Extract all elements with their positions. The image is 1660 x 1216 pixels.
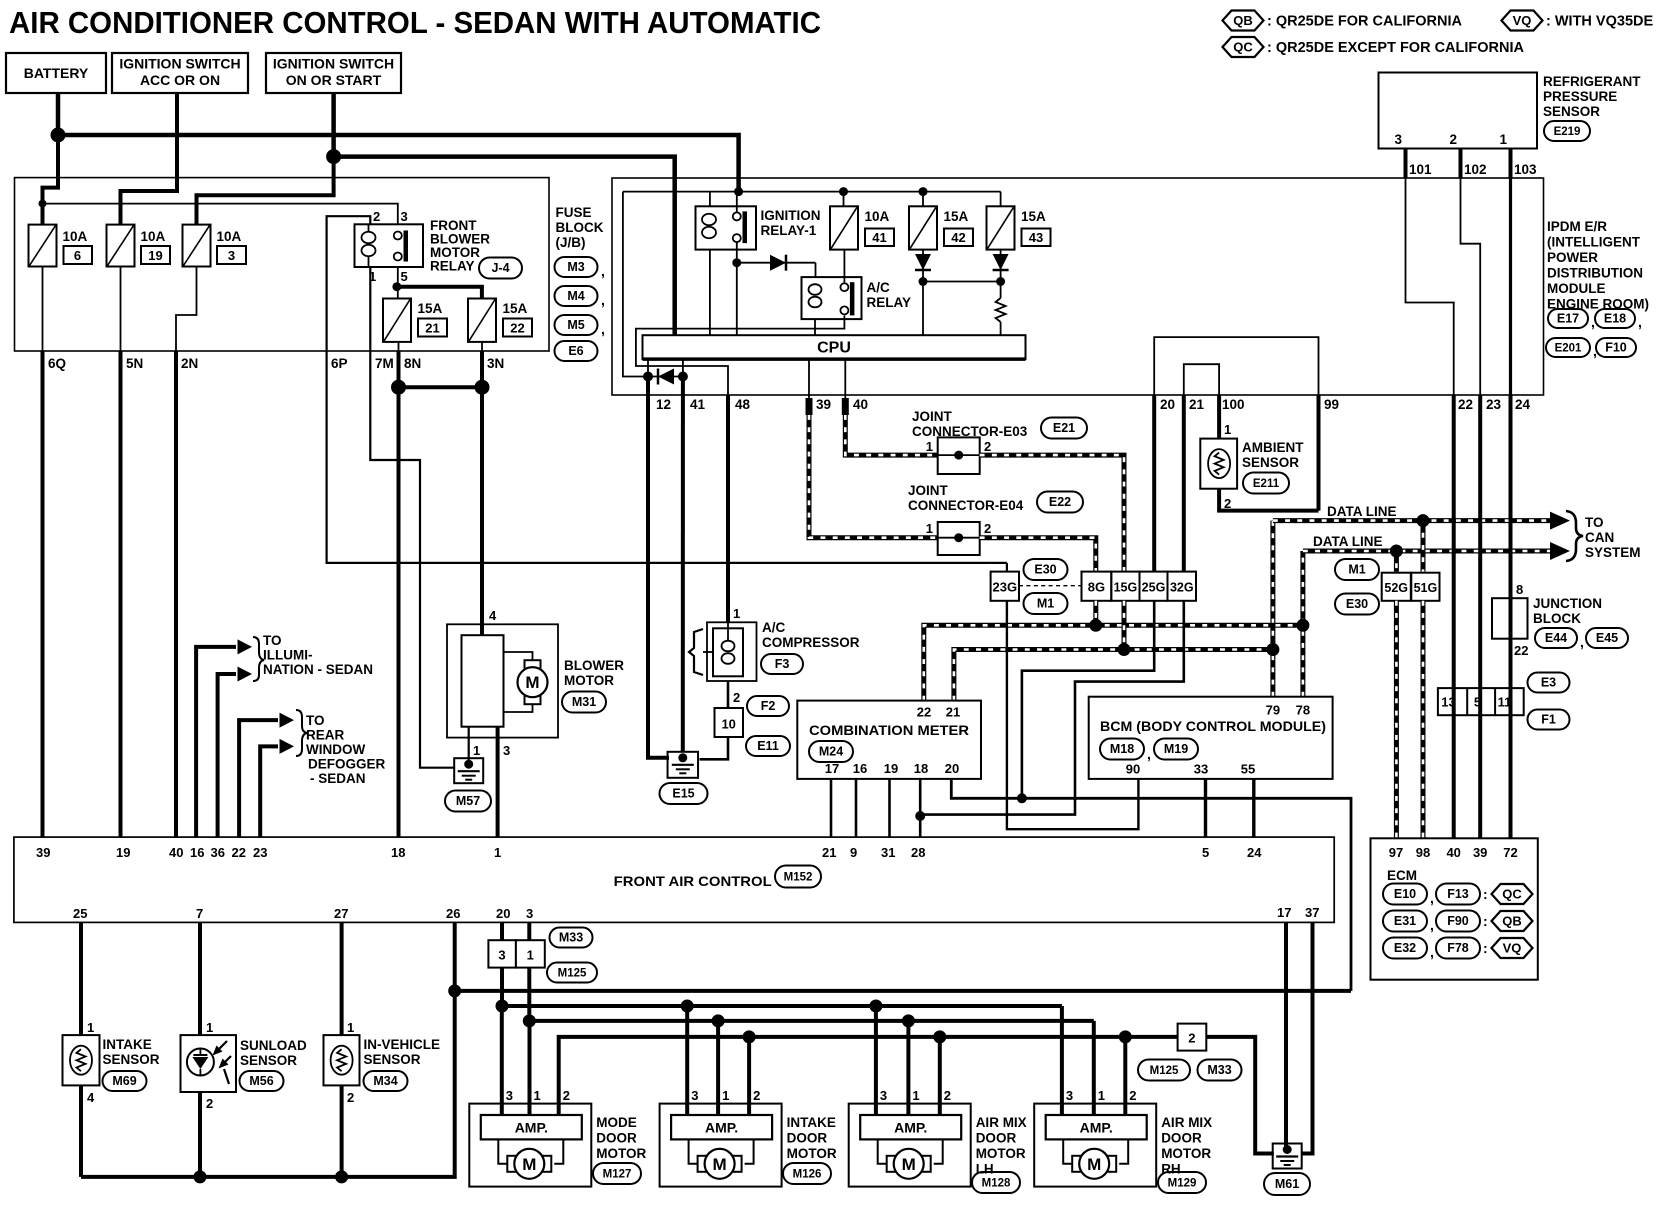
svg-text:41: 41 — [690, 397, 706, 412]
svg-text:5: 5 — [401, 269, 408, 284]
svg-text:REFRIGERANT: REFRIGERANT — [1543, 74, 1641, 89]
svg-text:AMP.: AMP. — [1080, 1120, 1113, 1136]
svg-text:2: 2 — [733, 690, 740, 705]
svg-text:F10: F10 — [1605, 341, 1627, 355]
svg-text:RELAY: RELAY — [430, 259, 475, 274]
svg-text:36: 36 — [211, 845, 225, 860]
junction CPU pin 12 — [643, 372, 653, 382]
diode below fuse 42 — [915, 254, 931, 270]
connector label E31 — [1383, 911, 1427, 932]
svg-text:SENSOR: SENSOR — [240, 1053, 297, 1068]
relay J-4 coil — [362, 232, 376, 243]
svg-text:41: 41 — [872, 230, 886, 245]
svg-text:1: 1 — [912, 1088, 919, 1103]
svg-text:M125: M125 — [558, 968, 587, 980]
svg-text:DOOR: DOOR — [1161, 1131, 1202, 1146]
svg-text:DOOR: DOOR — [596, 1131, 637, 1146]
svg-text:COMBINATION METER: COMBINATION METER — [809, 722, 969, 738]
wire ON/START to fuse 3 — [197, 157, 334, 225]
CPU box — [643, 335, 1026, 359]
wire ON/START feed horizontal to IPDM CPU — [334, 157, 675, 336]
wire joining 8N and 3N — [399, 385, 483, 389]
svg-text:22: 22 — [232, 845, 246, 860]
connector 1 box M33/M125 — [516, 940, 545, 967]
wire ON/START feed down — [331, 93, 336, 157]
svg-text:CONNECTOR-E04: CONNECTOR-E04 — [908, 498, 1024, 513]
wire A/C relay coil to CPU — [814, 319, 816, 335]
wire front air 36 to illumination arrow — [218, 674, 236, 837]
connector label F2 — [747, 696, 789, 716]
wire meter 18 to front air 28 — [919, 779, 922, 837]
svg-text:10A: 10A — [141, 229, 166, 244]
svg-text:19: 19 — [884, 761, 898, 776]
motor M air mix door motor LH M128 — [887, 1156, 896, 1172]
svg-text:E11: E11 — [757, 739, 779, 753]
svg-text:SENSOR: SENSOR — [1543, 104, 1600, 119]
junction bus C mode — [523, 1014, 536, 1027]
svg-text:DEFOGGER: DEFOGGER — [308, 757, 386, 772]
svg-text:90: 90 — [1126, 762, 1140, 777]
svg-text:9: 9 — [850, 845, 857, 860]
junction bus D air mix RH — [1119, 1030, 1132, 1043]
svg-text:25G: 25G — [1142, 581, 1166, 595]
junction joint connector E03 — [954, 451, 963, 460]
svg-text:23G: 23G — [993, 580, 1018, 595]
svg-text:4: 4 — [489, 608, 497, 623]
wire IPDM 24 to ECM 72 through junction block — [1509, 395, 1513, 838]
svg-text:21: 21 — [1189, 397, 1205, 412]
wire IPDM 20 to connector 25G — [1152, 395, 1156, 572]
junction diode 42 output — [919, 277, 928, 286]
svg-text:DOOR: DOOR — [787, 1131, 828, 1146]
IPDM E/R box — [612, 178, 1544, 395]
svg-text:M31: M31 — [572, 695, 596, 709]
svg-text:1: 1 — [926, 521, 933, 536]
svg-text:(INTELLIGENT: (INTELLIGENT — [1547, 235, 1641, 250]
svg-text:E30: E30 — [1034, 563, 1056, 577]
connector label M61 — [1264, 1173, 1310, 1195]
svg-text:TO: TO — [1585, 515, 1604, 530]
svg-text:25: 25 — [73, 906, 87, 921]
svg-text:18: 18 — [391, 845, 405, 860]
wire front air 16 to illumination arrow — [196, 647, 236, 837]
svg-text:F13: F13 — [1447, 887, 1469, 901]
wire front air 37 to ground M61 — [1303, 922, 1313, 1153]
connector label E21 — [1041, 418, 1087, 439]
wire IPDM 21-100 loop — [1184, 364, 1219, 395]
svg-text:102: 102 — [1464, 162, 1487, 177]
connector label M152 — [775, 866, 821, 888]
diode between 12 and 41 — [658, 369, 674, 385]
wire 23G to BCM 90 — [1007, 601, 1139, 829]
svg-text:,: , — [1430, 890, 1434, 906]
svg-text:MODULE: MODULE — [1547, 281, 1606, 296]
svg-text:23: 23 — [1486, 397, 1502, 412]
svg-text:10A: 10A — [217, 229, 242, 244]
wire fuse 41 to A/C relay contact — [843, 250, 845, 283]
svg-text:E32: E32 — [1394, 941, 1416, 955]
wire air mix LH pin 3 — [874, 1006, 878, 1115]
svg-text:21: 21 — [946, 705, 960, 720]
junction 3N — [475, 380, 490, 395]
connector label M57 — [445, 791, 491, 812]
svg-text:,: , — [1430, 917, 1434, 933]
wire intake pin 3 — [685, 1006, 689, 1115]
svg-text:10: 10 — [721, 717, 735, 732]
svg-text:M19: M19 — [1164, 742, 1188, 756]
svg-text:7M: 7M — [375, 356, 394, 371]
svg-text:55: 55 — [1241, 762, 1255, 777]
motor mode door motor M127 amp box — [469, 1104, 591, 1187]
svg-text:IGNITION SWITCH: IGNITION SWITCH — [273, 56, 394, 72]
blower motor internal wiring — [504, 652, 533, 660]
connector label E6 — [555, 341, 598, 361]
svg-text:M: M — [525, 673, 539, 692]
svg-text:11: 11 — [1498, 695, 1512, 710]
power source BATTERY — [6, 53, 106, 93]
connector label M24 — [809, 741, 853, 762]
wire air mix LH pin 1 — [906, 1021, 910, 1115]
svg-text:,: , — [601, 263, 605, 279]
svg-text:17: 17 — [825, 761, 839, 776]
wire DATA LINE 1 to connector 51G dashed — [1421, 521, 1426, 572]
connector label M126 — [783, 1163, 831, 1184]
svg-text:M1: M1 — [1348, 563, 1365, 577]
connector 51G box — [1411, 573, 1439, 601]
svg-text:A/C: A/C — [867, 280, 891, 295]
svg-text:3: 3 — [1066, 1088, 1073, 1103]
connector label E15 — [660, 783, 708, 804]
svg-text:40: 40 — [853, 397, 868, 412]
svg-text:1: 1 — [534, 1088, 541, 1103]
compressor clutch coil — [722, 641, 735, 652]
svg-text:,: , — [1638, 314, 1642, 330]
svg-text:31: 31 — [881, 845, 895, 860]
svg-text:21: 21 — [822, 845, 836, 860]
svg-text:2: 2 — [563, 1088, 570, 1103]
wire air mix LH pin 2 — [938, 1037, 942, 1115]
wire 51G to ECM 98 dashed — [1421, 601, 1426, 839]
junction sunload common — [194, 1170, 207, 1183]
fuse 15A 42 — [909, 206, 937, 249]
svg-text:24: 24 — [1247, 845, 1262, 860]
SUNLOAD SENSOR box — [181, 1035, 237, 1092]
connector label F78 — [1436, 938, 1480, 959]
svg-text:M129: M129 — [1168, 1178, 1197, 1190]
svg-text:SUNLOAD: SUNLOAD — [240, 1038, 307, 1053]
svg-text:AIR MIX: AIR MIX — [1161, 1115, 1212, 1130]
junction 8N — [391, 380, 406, 395]
junction BCM 78 branch — [1296, 619, 1309, 632]
svg-text:1: 1 — [733, 606, 740, 621]
svg-text:MOTOR: MOTOR — [787, 1146, 837, 1161]
wire sunload sensor to common — [198, 1092, 202, 1177]
svg-text:3: 3 — [503, 743, 510, 758]
svg-text:12: 12 — [656, 397, 671, 412]
wire mode pin 3 — [500, 1006, 504, 1115]
wire connector 10 to ground E15 — [700, 737, 729, 759]
svg-text:DOOR: DOOR — [976, 1131, 1017, 1146]
diode below fuse 43 — [993, 254, 1009, 270]
INTAKE SENSOR box — [63, 1035, 100, 1085]
svg-text:E15: E15 — [672, 787, 694, 801]
connector label E211 — [1243, 473, 1289, 494]
svg-text:SENSOR: SENSOR — [103, 1052, 160, 1067]
thermistor ambient sensor — [1208, 449, 1230, 478]
junction bus C air mix LH — [902, 1014, 915, 1027]
svg-text:ON OR START: ON OR START — [286, 72, 382, 88]
svg-text:AMP.: AMP. — [515, 1120, 548, 1136]
motor air mix door motor RH M129 amp box — [1034, 1104, 1156, 1187]
svg-text::: : — [1483, 913, 1488, 929]
svg-text:M: M — [902, 1155, 916, 1174]
amp intake door motor M126 — [671, 1115, 772, 1139]
svg-text::: : — [1483, 940, 1488, 956]
wire 6P relay pin 2 to connector 23G — [327, 216, 991, 563]
svg-text:1: 1 — [926, 439, 933, 454]
svg-text:28: 28 — [911, 845, 925, 860]
svg-text:3: 3 — [691, 1088, 698, 1103]
svg-text:QB: QB — [1502, 914, 1522, 929]
svg-text:10A: 10A — [865, 209, 890, 224]
connector label E45 — [1586, 628, 1628, 648]
svg-text:M: M — [713, 1155, 727, 1174]
wire 3N fuse 22 to blower motor — [481, 342, 483, 351]
A/C COMPRESSOR box — [707, 622, 757, 681]
connector label E18 — [1595, 309, 1635, 328]
svg-text:IN-VEHICLE: IN-VEHICLE — [364, 1037, 441, 1052]
arrow DATA LINE 1 — [1550, 512, 1570, 530]
svg-text:M57: M57 — [456, 794, 480, 808]
connector label M1 at 23G — [1024, 593, 1068, 614]
junction ignition relay output — [732, 258, 741, 267]
svg-text:SYSTEM: SYSTEM — [1585, 545, 1641, 560]
svg-text:3: 3 — [498, 948, 505, 963]
amp air mix door motor RH M129 — [1046, 1115, 1147, 1139]
svg-text:J-4: J-4 — [491, 261, 509, 275]
wire front air 17 to ground M61 — [1284, 922, 1288, 1146]
junction battery feed — [51, 128, 66, 143]
svg-text:CPU: CPU — [817, 340, 851, 357]
svg-text:M24: M24 — [819, 745, 843, 759]
connector label M56 — [240, 1071, 284, 1091]
svg-text:AMP.: AMP. — [894, 1120, 927, 1136]
svg-text:1: 1 — [87, 1020, 94, 1035]
wire joining diode outputs — [923, 281, 1001, 283]
wire 7M relay pin 1 to ground M57 — [370, 267, 455, 768]
wire BCM 78 to DATA LINE 2 dashed — [1300, 551, 1305, 697]
svg-text:99: 99 — [1324, 397, 1339, 412]
wire meter 20 to ECM line — [951, 779, 1351, 991]
svg-text:BLOWER: BLOWER — [564, 658, 624, 673]
svg-text:5: 5 — [1202, 845, 1209, 860]
svg-text:BLOCK: BLOCK — [556, 220, 604, 235]
motor intake door motor M126 internal wiring — [689, 1139, 698, 1163]
svg-text:M125: M125 — [1150, 1065, 1179, 1077]
junction bus C intake — [712, 1014, 725, 1027]
wire 2N fuse 3 to front air control 40 — [176, 267, 197, 352]
svg-text:1: 1 — [1224, 422, 1231, 437]
wire IPDM 22 to ECM 40 — [1452, 395, 1456, 838]
wire front air 23 to defogger arrow — [260, 746, 278, 837]
svg-text:2: 2 — [206, 1096, 213, 1111]
svg-text:M4: M4 — [567, 289, 584, 303]
svg-text:M61: M61 — [1275, 1177, 1299, 1191]
connector label M5 — [555, 315, 598, 335]
svg-text:E22: E22 — [1049, 495, 1071, 509]
svg-text:42: 42 — [951, 230, 965, 245]
wire 103 to pin 24 — [1509, 178, 1512, 395]
wire 25G to meter 20 line — [1022, 601, 1154, 799]
svg-text:1: 1 — [347, 1020, 354, 1035]
wire compressor pin 2 to connector 10 — [727, 681, 730, 708]
svg-text:IGNITION: IGNITION — [761, 208, 821, 223]
svg-text:79: 79 — [1266, 703, 1280, 718]
arrow DATA LINE 2 — [1550, 542, 1570, 560]
svg-text:AIR MIX: AIR MIX — [976, 1115, 1027, 1130]
svg-text:5: 5 — [1474, 695, 1481, 710]
wire ignition relay coil loop — [709, 192, 711, 207]
svg-text:M1: M1 — [1037, 597, 1054, 611]
wire battery feed down — [56, 93, 61, 135]
svg-text:97: 97 — [1389, 845, 1403, 860]
wire ignition relay coil to CPU — [709, 250, 711, 336]
svg-text:ACC OR ON: ACC OR ON — [140, 72, 220, 88]
svg-text:CAN: CAN — [1585, 530, 1614, 545]
wire intake pin 2 — [747, 1037, 751, 1115]
thermistor intake sensor — [70, 1046, 92, 1075]
wire meter 22 dashed to data line 2 branch — [924, 625, 1303, 700]
svg-text:13: 13 — [1441, 695, 1455, 710]
wire DATA LINE 2 dashed to CAN — [1303, 549, 1554, 554]
motor air mix door motor LH M128 amp box — [849, 1104, 971, 1187]
connector label E201 — [1546, 338, 1590, 357]
variant symbol VQ in ECM — [1492, 938, 1533, 958]
svg-text:6P: 6P — [331, 356, 348, 371]
junction battery bus at fuse 42 — [919, 187, 928, 196]
dashed link 23G to 8G — [1019, 585, 1082, 587]
connector label E11 — [746, 736, 790, 756]
wire meter 16 to front air 9 — [855, 779, 858, 837]
wire bus B pin3 line — [502, 1004, 1062, 1008]
amp mode door motor M127 — [481, 1115, 582, 1139]
svg-text:,: , — [601, 321, 605, 337]
BCM box — [1089, 697, 1333, 779]
svg-text:M18: M18 — [1110, 742, 1134, 756]
connector 10 box — [715, 708, 744, 737]
connector label E30 at 23G — [1024, 559, 1068, 580]
relay A/C RELAY contact — [840, 283, 848, 291]
wire BCM 79 to DATA LINE 1 dashed — [1270, 521, 1275, 697]
svg-text:1: 1 — [722, 1088, 729, 1103]
junction in-vehicle common — [335, 1170, 348, 1183]
svg-text:M126: M126 — [793, 1169, 822, 1181]
svg-text:22: 22 — [510, 321, 524, 336]
COMBINATION METER box — [797, 701, 981, 779]
joint connector E04 box — [938, 522, 980, 555]
wire front air 22 to defogger arrow — [239, 720, 278, 837]
svg-text:15A: 15A — [944, 209, 969, 224]
junction DATA LINE 2 at 52G — [1390, 545, 1403, 558]
svg-text:TO: TO — [306, 713, 325, 728]
svg-text:F3: F3 — [775, 657, 790, 671]
svg-text:1: 1 — [1098, 1088, 1105, 1103]
svg-text:JOINT: JOINT — [908, 483, 949, 498]
connector label M127 — [593, 1163, 641, 1184]
junction battery bus at fuse 41 — [839, 187, 848, 196]
svg-text:IPDM E/R: IPDM E/R — [1547, 219, 1607, 234]
svg-text:E3: E3 — [1541, 676, 1556, 690]
joint connector E03 box — [938, 437, 980, 474]
svg-text:3: 3 — [880, 1088, 887, 1103]
wire sensor pin 1 wire 103 — [1509, 149, 1513, 179]
svg-text:33: 33 — [1194, 762, 1208, 777]
svg-text:E17: E17 — [1557, 312, 1579, 326]
svg-text:E44: E44 — [1545, 631, 1567, 645]
svg-text:F78: F78 — [1447, 941, 1469, 955]
wire mode pin 1 — [528, 1021, 532, 1115]
svg-text:51G: 51G — [1414, 581, 1438, 595]
svg-text:19: 19 — [148, 248, 162, 263]
wire front air 20 to amp bus B — [500, 922, 504, 1006]
wire A/C relay contact to pin 48 — [636, 316, 845, 396]
svg-text:F2: F2 — [761, 699, 776, 713]
wire 32G to meter 18 junction — [920, 601, 1184, 815]
svg-text:26: 26 — [446, 906, 460, 921]
svg-text:37: 37 — [1305, 905, 1319, 920]
svg-text:COMPRESSOR: COMPRESSOR — [762, 635, 860, 650]
motor air mix door motor LH M128 internal wiring — [878, 1139, 887, 1163]
wire IPDM 23 to ECM 39 — [1478, 395, 1482, 838]
svg-text:2: 2 — [984, 439, 991, 454]
svg-text:E31: E31 — [1394, 914, 1416, 928]
svg-text:F90: F90 — [1447, 914, 1469, 928]
wire DATA LINE 2 to connector 52G dashed — [1394, 551, 1399, 572]
svg-text:M56: M56 — [249, 1074, 273, 1088]
wire front air 25 to intake sensor — [79, 922, 83, 1035]
ground E15 — [668, 752, 699, 778]
svg-text:6Q: 6Q — [48, 356, 66, 371]
svg-text:M152: M152 — [784, 872, 813, 884]
relay IGNITION RELAY-1 contact — [733, 212, 741, 220]
svg-text:QB: QB — [1233, 13, 1253, 28]
wire ambient sensor pin 2 to IPDM 99 — [1219, 489, 1318, 511]
connector label E22 — [1037, 492, 1083, 513]
svg-text:15A: 15A — [418, 301, 443, 316]
connector label E44 — [1535, 628, 1577, 648]
svg-text:JOINT: JOINT — [912, 409, 953, 424]
svg-text:NATION - SEDAN: NATION - SEDAN — [263, 662, 373, 677]
svg-text:M33: M33 — [1207, 1063, 1231, 1077]
svg-text:M34: M34 — [373, 1074, 397, 1088]
fuse 15A 21 — [383, 299, 411, 342]
svg-text:27: 27 — [334, 906, 348, 921]
svg-text:1: 1 — [473, 743, 480, 758]
connector label E10 — [1383, 884, 1427, 905]
svg-text:4: 4 — [87, 1090, 95, 1105]
wire blower pin 3 to front air control 1 — [496, 727, 500, 837]
svg-text:5N: 5N — [126, 356, 143, 371]
junction DATA LINE 1 at 51G — [1417, 514, 1430, 527]
svg-text:3: 3 — [1394, 132, 1402, 147]
svg-text:1: 1 — [206, 1020, 213, 1035]
junction battery bus at feed — [734, 187, 743, 196]
svg-text:RH: RH — [1161, 1162, 1181, 1177]
junction bus B intake — [681, 1000, 694, 1013]
svg-text:,: , — [1147, 746, 1151, 762]
connector label M33 top — [550, 928, 593, 948]
wire BCM 33 to front air 5 — [1204, 779, 1207, 837]
